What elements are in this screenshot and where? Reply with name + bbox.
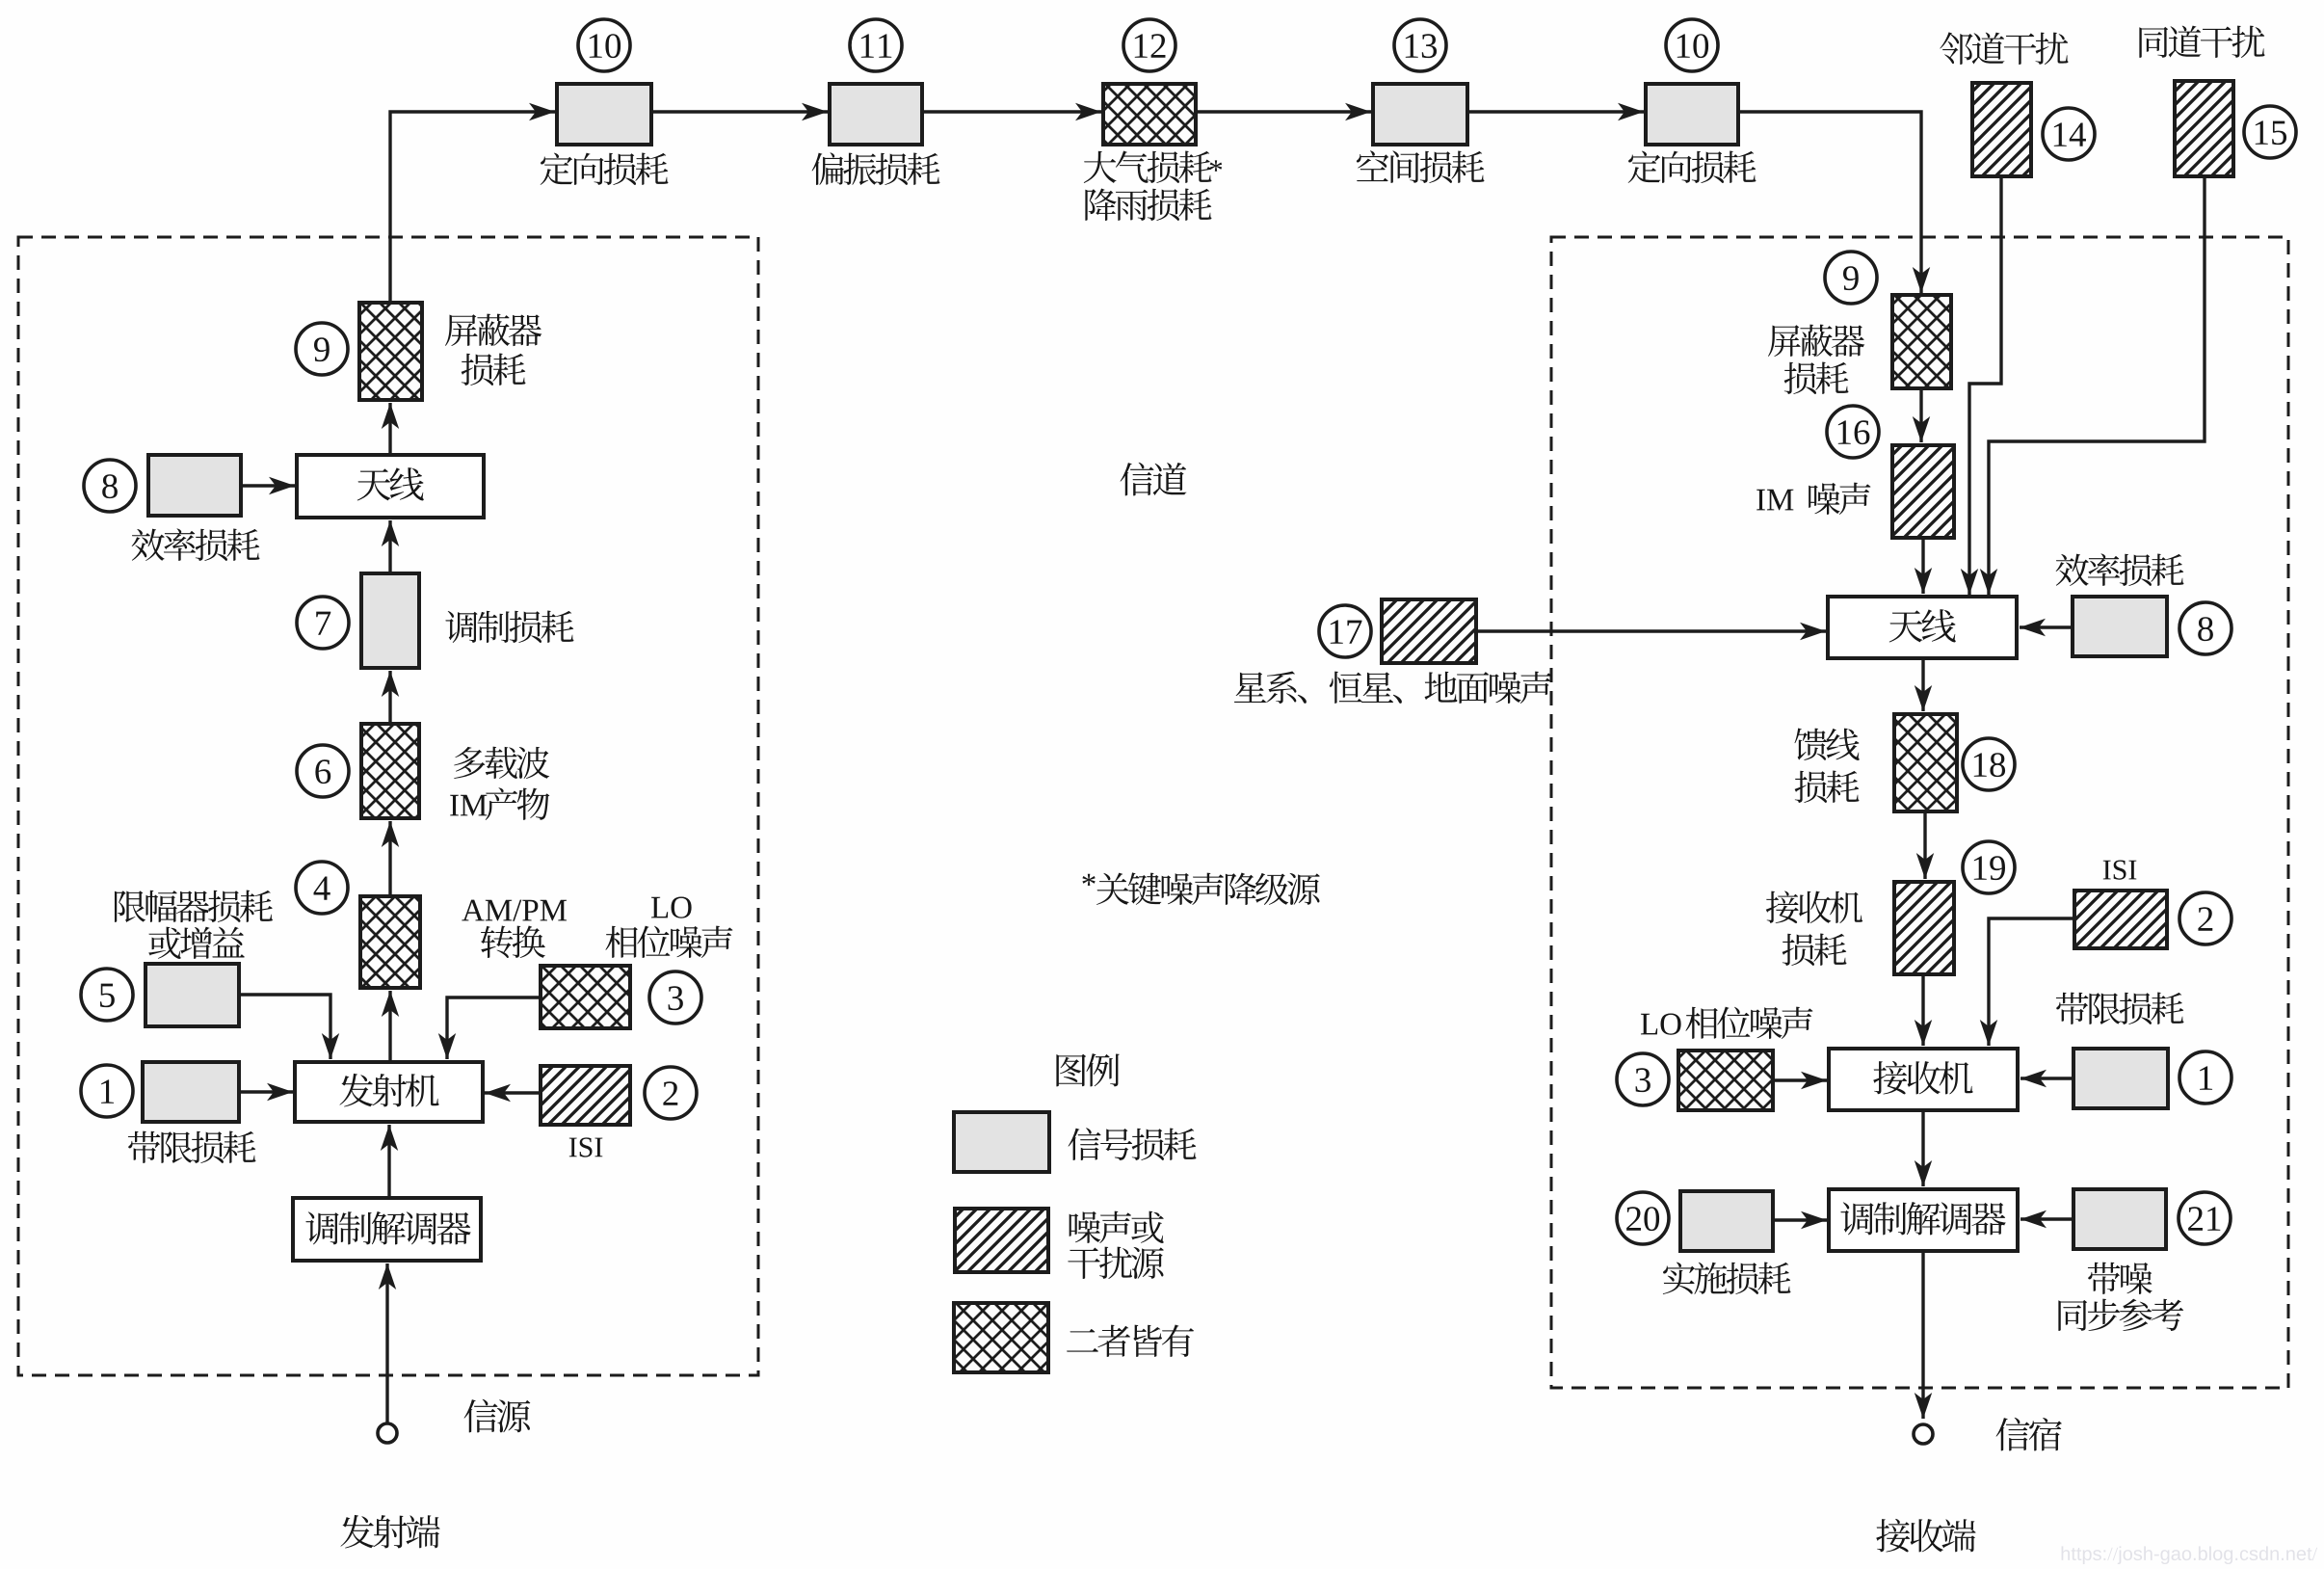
label 损耗 line2 of receiver loss xyxy=(1783,934,1847,966)
label IM噪声: 噪声 part xyxy=(1809,483,1870,515)
label 信道 (channel) xyxy=(1120,463,1186,496)
wire: transmitter up to box4 xyxy=(382,991,399,1062)
wire: box3b into receiver xyxy=(1773,1072,1827,1089)
watermark text xyxy=(2062,1546,2318,1564)
circle 3 rx xyxy=(1617,1053,1669,1105)
wire: box17 into rx antenna xyxy=(1476,623,1826,640)
circle 9 tx xyxy=(296,323,348,375)
box 10a pointing loss (gray) xyxy=(557,84,651,145)
label 天线 rx (antenna) xyxy=(1889,609,1956,642)
wire: box13 to box10b xyxy=(1467,103,1644,120)
circle 1 tx xyxy=(81,1065,133,1117)
wire: tx chain up from shield loss to channel row xyxy=(390,103,555,303)
legend box both (crosshatch) xyxy=(954,1303,1048,1372)
wire: box14 down to rx antenna xyxy=(1961,176,2001,595)
box 19 receiver loss (hatch) xyxy=(1894,882,1954,974)
label 产物 of IM产物 xyxy=(486,787,550,820)
label 大气损耗* line1 xyxy=(1084,151,1212,183)
label AM/PM line1 xyxy=(462,900,567,921)
source terminal circle 信源节点 xyxy=(378,1423,397,1443)
label asterisk of 大气损耗* xyxy=(1210,160,1223,171)
box 14 adjacent-channel interference (hatch) xyxy=(1972,83,2031,176)
label 屏蔽器 tx line1 xyxy=(445,314,541,347)
box 2a ISI tx (hatch) xyxy=(541,1066,630,1125)
label 带限损耗 rx xyxy=(2056,993,2184,1024)
label 星系、恒星、地面噪声 xyxy=(1234,672,1552,704)
wire: box3a into transmitter top xyxy=(438,997,541,1059)
circle 2 tx xyxy=(645,1067,697,1119)
sink terminal circle 信宿节点 xyxy=(1914,1424,1933,1444)
circle 1 rx xyxy=(2179,1051,2232,1104)
wire: box1b into receiver xyxy=(2020,1070,2073,1087)
wire: box18 down to receiver loss xyxy=(1916,811,1934,879)
label 偏振损耗 (polarization loss) xyxy=(812,152,940,185)
legend label 噪声或 line1 xyxy=(1070,1211,1164,1243)
wire: box10a to box11 xyxy=(651,103,828,120)
receive-side dashed boundary (信宿 region) xyxy=(1551,237,2288,1388)
label 邻道干扰 (adjacent channel interference) xyxy=(1940,32,2068,65)
circle 4 xyxy=(296,862,348,914)
label 降雨损耗 line2 xyxy=(1085,188,1211,221)
wire: box20 into modem rx xyxy=(1773,1211,1827,1229)
label 发射机 (transmitter) xyxy=(339,1074,438,1107)
modem box 调制解调器 rx xyxy=(1829,1189,2018,1251)
label 相位噪声 line2 xyxy=(605,926,732,958)
wire: box21 into modem rx xyxy=(2020,1210,2073,1228)
wire: box11 to box12 xyxy=(922,103,1101,120)
wire: box8b into rx antenna xyxy=(2020,619,2073,636)
box 4 AM/PM conversion (crosshatch) xyxy=(360,896,420,988)
box 13 space loss (gray) xyxy=(1373,84,1467,145)
box 5 limiter loss or gain (gray) xyxy=(145,964,239,1026)
label 信宿 (sink) xyxy=(1995,1418,2061,1451)
box 1b bandlimit loss rx (gray) xyxy=(2073,1049,2168,1108)
label 接收机 line1 (receiver loss) xyxy=(1766,891,1862,923)
label 同道干扰 (co-channel interference) xyxy=(2139,26,2264,58)
label 带噪 line1 xyxy=(2088,1263,2152,1294)
circle 16 xyxy=(1827,406,1879,458)
wire: rx antenna down to feeder loss xyxy=(1915,658,1932,711)
label 多载波 line1 xyxy=(454,747,549,779)
circle 21 xyxy=(2179,1192,2231,1244)
label 接收机 (receiver) xyxy=(1873,1061,1972,1095)
circle 5 xyxy=(81,969,133,1021)
box 21 noisy sync reference (gray) xyxy=(2073,1189,2166,1249)
circle 13 xyxy=(1394,19,1446,71)
label asterisk of 关键 xyxy=(1082,874,1095,886)
label 效率损耗 rx xyxy=(2056,553,2184,586)
label *关键噪声降级源 (critical noise sources) xyxy=(1096,872,1320,905)
box 3b LO phase noise rx (crosshatch) xyxy=(1678,1050,1773,1110)
label 转换 line2 xyxy=(481,925,545,958)
box 18 feeder loss (crosshatch) xyxy=(1894,714,1957,811)
modem box 调制解调器 tx xyxy=(293,1198,481,1261)
legend box signal loss (gray) xyxy=(954,1112,1049,1172)
box 16 IM noise (hatch) xyxy=(1892,445,1954,538)
label 天线 tx (antenna) xyxy=(357,467,424,500)
box 2b ISI rx (hatch) xyxy=(2074,891,2167,948)
circle 17 xyxy=(1319,605,1371,657)
box 15 co-channel interference (hatch) xyxy=(2175,81,2233,176)
wire: modem up to transmitter xyxy=(381,1125,398,1198)
label 或增益 line2 xyxy=(148,927,245,959)
wire: box4 up to box6 xyxy=(382,821,399,896)
wire: box7 up to tx antenna xyxy=(382,520,399,573)
circle 2 rx xyxy=(2179,892,2232,944)
wire: box5 into transmitter top xyxy=(239,995,339,1059)
box 9b shield loss rx (crosshatch) xyxy=(1892,295,1951,388)
circle 11 xyxy=(850,19,902,71)
wire: tx antenna up to shield loss xyxy=(382,403,399,455)
circle 15 xyxy=(2244,106,2296,158)
label LO line1 xyxy=(651,897,692,918)
transmitter box 发射机 xyxy=(295,1062,483,1122)
wire: box9b down to box16 xyxy=(1913,388,1930,442)
label 接收端 (receive end) xyxy=(1876,1519,1975,1553)
wire: source terminal up to modem xyxy=(379,1263,396,1423)
circle 14 xyxy=(2043,108,2095,160)
label 调制损耗 (modulation loss) xyxy=(445,611,573,643)
box 10b pointing loss (gray) xyxy=(1646,84,1738,145)
label ISI rx xyxy=(2103,861,2137,880)
circle 19 xyxy=(1963,841,2015,893)
circle 9 rx xyxy=(1825,252,1877,304)
label 损耗 tx line2 xyxy=(462,354,526,386)
label IM产物 line2 xyxy=(450,795,487,816)
wire: box2b into receiver top xyxy=(1980,918,2074,1046)
label 发射端 (transmit end) xyxy=(340,1515,439,1549)
label 损耗 rx line2 xyxy=(1784,362,1849,394)
legend label 信号损耗 (signal loss) xyxy=(1069,1128,1197,1160)
label 馈线 line1 xyxy=(1795,729,1860,760)
wire: box8a into tx antenna xyxy=(241,477,295,494)
circle 3 tx xyxy=(649,971,701,1024)
wire: box2a into transmitter xyxy=(485,1084,541,1102)
circle 20 xyxy=(1617,1192,1669,1244)
label 屏蔽器 rx line1 xyxy=(1768,325,1864,358)
circle 12 xyxy=(1123,19,1175,71)
circle 8 tx xyxy=(84,460,136,512)
label 效率损耗 tx (efficiency loss) xyxy=(132,528,260,561)
label 调制解调器 tx (modem) xyxy=(305,1211,470,1245)
label LO of LO相位噪声 xyxy=(1641,1014,1681,1035)
wire: modem rx down to sink terminal xyxy=(1915,1251,1932,1419)
legend box noise/interference (hatch) xyxy=(955,1209,1048,1272)
wire: box1a into transmitter xyxy=(239,1083,293,1101)
wire: box12 to box13 xyxy=(1196,103,1371,120)
circle 7 xyxy=(297,597,349,649)
box 3a LO phase noise tx (crosshatch) xyxy=(541,966,630,1028)
wire: box6 up to box7 xyxy=(382,671,399,724)
box 20 implementation loss (gray) xyxy=(1680,1191,1773,1251)
legend title 图例 xyxy=(1056,1053,1119,1086)
circle 6 xyxy=(297,745,349,797)
box 11 polarization loss (gray) xyxy=(830,84,922,145)
tx antenna box 天线 xyxy=(297,455,484,518)
legend label 干扰源 line2 xyxy=(1068,1247,1163,1279)
receiver box 接收机 xyxy=(1829,1049,2018,1110)
box 1a bandlimit loss tx (gray) xyxy=(143,1062,239,1122)
wire: box15 down to rx antenna xyxy=(1980,176,2205,595)
label 损耗 line2 xyxy=(1795,771,1860,803)
box 8b efficiency loss rx (gray) xyxy=(2073,597,2167,656)
box 8a efficiency loss tx (gray) xyxy=(148,455,241,516)
wire: receiver down to modem rx xyxy=(1915,1110,1932,1186)
label 同步参考 line2 xyxy=(2058,1299,2183,1331)
box 17 galaxy/star/ground noise (hatch) xyxy=(1382,599,1476,663)
label 定向损耗 (pointing loss) xyxy=(541,153,669,185)
rx antenna box 天线 xyxy=(1828,597,2017,658)
box 9a shield loss tx (crosshatch) xyxy=(359,303,422,400)
label ISI tx xyxy=(569,1137,603,1157)
label 限幅器损耗 line1 xyxy=(115,891,273,923)
label 带限损耗 tx (band-limiting loss) xyxy=(128,1131,256,1163)
transmit-side dashed boundary (信源 region) xyxy=(18,237,758,1375)
wire: box19 down to receiver xyxy=(1915,974,1932,1046)
label IM of IM噪声 xyxy=(1756,490,1793,511)
legend label 二者皆有 (both) xyxy=(1067,1325,1194,1357)
circle 10 over pointing loss xyxy=(578,19,630,71)
label LO相位噪声 rx: CJK part xyxy=(1685,1007,1812,1039)
label 实施损耗 (implementation loss) xyxy=(1663,1263,1791,1294)
label 信源 (source) xyxy=(463,1399,530,1433)
box 12 atmospheric/rain loss (crosshatch) xyxy=(1103,84,1196,145)
wire: box16 down to rx antenna xyxy=(1915,538,1932,594)
box 7 modulation loss (gray) xyxy=(361,573,419,668)
label 空间损耗 (space loss) xyxy=(1357,150,1485,183)
circle 8 rx xyxy=(2179,602,2232,654)
circle 10 right xyxy=(1666,19,1718,71)
circle 18 xyxy=(1963,738,2015,790)
label 定向损耗 right (pointing loss) xyxy=(1628,151,1756,183)
wire: box10b down into rx shield loss xyxy=(1738,112,1930,293)
label 调制解调器 rx (modem) xyxy=(1840,1202,2005,1236)
box 6 multicarrier IM products (crosshatch) xyxy=(361,724,419,818)
